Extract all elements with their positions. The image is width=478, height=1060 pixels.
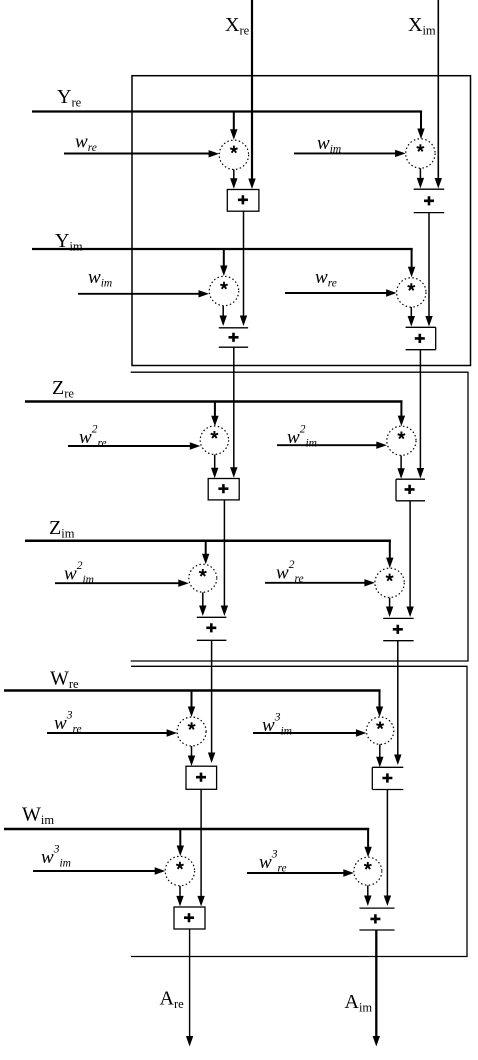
- multiplier M11: [165, 856, 194, 885]
- wire Wre bus: [4, 689, 381, 692]
- wire Zre bus: [25, 400, 403, 403]
- wire M12 out: [367, 885, 369, 895]
- multiplier M8: [375, 568, 404, 597]
- multiplier M3: [209, 276, 238, 305]
- wire stage2 im carry: [397, 641, 399, 755]
- wire S5-right out: [386, 790, 388, 896]
- wire w2_re arrow: [68, 445, 191, 447]
- multiplier M6: [387, 426, 416, 455]
- wire M4 out: [410, 307, 412, 317]
- wire w3_im arrow: [253, 732, 357, 734]
- adder S2 right (sum im): [406, 327, 436, 349]
- adder S4 right: [383, 618, 413, 640]
- wire Wim to mult M12: [367, 828, 369, 848]
- adder S6 right: [359, 908, 394, 930]
- wire Yre branch to mult M1: [233, 112, 235, 130]
- stage-2 box: [131, 372, 468, 661]
- wire w2_im row2 arrow: [55, 582, 180, 584]
- adder S1 left (Yre*wre + Xre): [227, 190, 259, 212]
- wire w3_im row2 arrow: [33, 870, 157, 872]
- multiplier M12: [354, 857, 382, 885]
- wire stage1 im carry: [419, 350, 421, 469]
- wire Yim to mult M4: [411, 248, 413, 268]
- adder S3 left: [208, 479, 239, 500]
- multiplier M1: [219, 140, 248, 169]
- adder S5 left: [186, 766, 217, 789]
- adder S6 left: [174, 907, 205, 929]
- wire M7 out: [202, 592, 204, 605]
- wire w2_re row2 arrow: [265, 582, 366, 584]
- wire Zim to mult M8: [389, 540, 391, 559]
- multiplier M2: [406, 139, 435, 168]
- wire Xre input: [251, 0, 253, 180]
- wire M6 out: [400, 456, 402, 469]
- wire M5 out: [214, 455, 216, 468]
- wire Yre bus: [32, 110, 422, 112]
- multiplier M4: [397, 278, 426, 307]
- stage-1 box: [132, 76, 471, 366]
- wire Yim branch to mult M3: [223, 250, 225, 267]
- wire Yre to mult M2: [420, 111, 422, 130]
- wire w_im row2 arrow: [78, 293, 200, 295]
- wire M10 out: [379, 744, 381, 757]
- wire S1-left out: [243, 211, 245, 315]
- wire Zre to mult M6: [400, 401, 402, 418]
- stage-3 box: [131, 666, 467, 956]
- wire M8 out: [389, 598, 391, 607]
- wire Zre branch to mult M5: [214, 402, 216, 417]
- wire S5-left out: [200, 789, 202, 896]
- wire Wre branch to mult M9: [191, 691, 193, 708]
- wire w3_re arrow: [47, 732, 168, 734]
- multiplier M5: [200, 426, 228, 454]
- adder S2 left (sum re): [219, 328, 248, 347]
- multiplier M10: [366, 717, 393, 744]
- multiplier M7: [189, 564, 217, 592]
- wire Xim input: [437, 0, 439, 179]
- wire M3 out: [222, 306, 224, 316]
- wire Are output: [189, 929, 191, 1036]
- wire w3_re row2 arrow: [247, 872, 345, 874]
- wire stage2 re carry: [211, 640, 213, 752]
- wire Wim branch to mult M11: [179, 830, 181, 847]
- wire S3-right out: [409, 501, 411, 607]
- adder S5 right: [372, 767, 403, 789]
- wire stage1 re carry: [233, 347, 235, 467]
- wire M2 out: [419, 168, 421, 178]
- adder S1 right (Yre*wim + Xim): [414, 189, 445, 212]
- adder S3 right: [396, 479, 425, 501]
- multiplier M9: [177, 717, 206, 746]
- wire S3-left out: [223, 500, 225, 606]
- wire Yim bus: [32, 248, 413, 250]
- adder S4 left: [197, 617, 227, 640]
- wire w_im arrow: [294, 152, 396, 154]
- wire M1 out: [233, 170, 235, 179]
- wire Zim bus: [25, 539, 391, 542]
- wire w2_im arrow: [277, 444, 378, 446]
- wire Aim output: [375, 930, 377, 1036]
- wire Wim bus: [4, 828, 369, 831]
- wire w_re arrow: [64, 153, 210, 155]
- wire M11 out: [179, 886, 181, 896]
- wire w_re row2 arrow: [285, 292, 387, 294]
- wire Wre to mult M10: [379, 690, 381, 708]
- wire Zim branch to mult M7: [205, 541, 207, 554]
- wire S1-right out: [428, 213, 430, 317]
- wire M9 out: [191, 746, 193, 756]
